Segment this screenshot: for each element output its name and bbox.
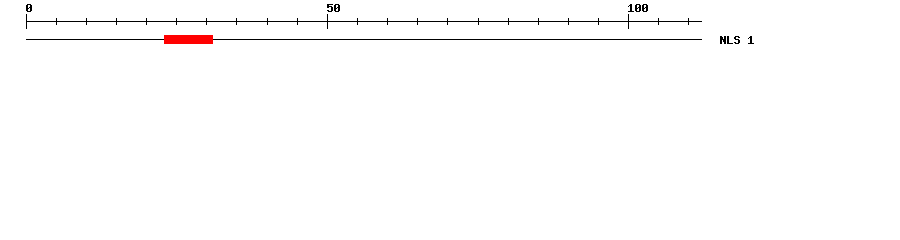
minor tick 45 (297, 18, 298, 25)
minor tick 60 (387, 18, 388, 25)
minor tick 5 (56, 18, 57, 25)
major tick 100 (628, 14, 629, 29)
minor tick 110 (688, 18, 689, 25)
minor tick 90 (568, 18, 569, 25)
ruler label 100 (628, 4, 648, 12)
major tick 0 (26, 14, 27, 29)
ruler axis line (26, 21, 702, 22)
minor tick 85 (538, 18, 539, 25)
ruler label 0 (26, 4, 32, 12)
minor tick 105 (658, 18, 659, 25)
minor tick 10 (86, 18, 87, 25)
minor tick 55 (357, 18, 358, 25)
sequence line (26, 39, 702, 40)
minor tick 25 (176, 18, 177, 25)
minor tick 95 (598, 18, 599, 25)
minor tick 80 (508, 18, 509, 25)
minor tick 40 (267, 18, 268, 25)
minor tick 65 (417, 18, 418, 25)
major tick 50 (327, 14, 328, 29)
minor tick 75 (478, 18, 479, 25)
minor tick 30 (206, 18, 207, 25)
minor tick 70 (447, 18, 448, 25)
minor tick 35 (236, 18, 237, 25)
minor tick 20 (146, 18, 147, 25)
feature label NLS 1 (720, 36, 754, 44)
feature box NLS 1 (red) (164, 35, 213, 44)
minor tick 15 (116, 18, 117, 25)
ruler label 50 (327, 4, 340, 12)
